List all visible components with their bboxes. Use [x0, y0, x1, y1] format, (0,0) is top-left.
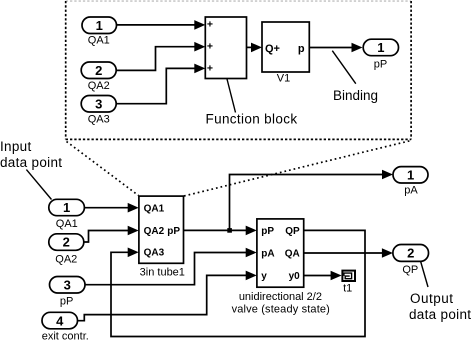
- svg-text:2: 2: [63, 235, 70, 250]
- block V1: [262, 22, 309, 85]
- dashed zoom-detail box: [66, 1, 411, 139]
- inport 2 (QA2, detail view): [81, 62, 116, 92]
- zoom funnel dotted line right: [184, 141, 411, 197]
- svg-text:pP: pP: [60, 295, 73, 307]
- svg-text:V1: V1: [277, 73, 290, 85]
- svg-text:QP: QP: [402, 264, 418, 276]
- svg-text:Q+: Q+: [265, 43, 280, 55]
- svg-text:2: 2: [95, 63, 102, 78]
- outport pP (detail view): [363, 39, 398, 70]
- svg-text:3in tube1: 3in tube1: [140, 266, 185, 278]
- wire QA1 to sum input 1: [117, 20, 206, 30]
- wire QA2 to sum input 2: [116, 42, 205, 71]
- svg-text:2: 2: [407, 246, 414, 261]
- inport 4 (exit contr.): [42, 312, 89, 341]
- wire inport 3 to valve pA: [85, 248, 257, 285]
- wire QA3 to sum input 3: [116, 64, 205, 104]
- feedback wire valve QP to tube QA3: [111, 230, 365, 336]
- callout line to Binding label: [332, 51, 356, 84]
- svg-text:1: 1: [407, 167, 414, 182]
- wire valve QA to outport 2: [304, 248, 393, 258]
- svg-text:+: +: [207, 19, 213, 31]
- svg-text:3: 3: [95, 97, 102, 112]
- wire branch to outport pA: [230, 170, 394, 231]
- svg-text:+: +: [207, 41, 213, 53]
- svg-text:1: 1: [96, 18, 103, 33]
- svg-text:Input: Input: [0, 139, 32, 154]
- wire sum to V1: [247, 43, 263, 53]
- svg-text:Binding: Binding: [333, 88, 378, 103]
- svg-text:QA2: QA2: [88, 80, 110, 92]
- outport 1 (pA): [393, 167, 428, 197]
- wire inport 2 to tube QA2: [84, 226, 139, 242]
- svg-text:QA3: QA3: [88, 114, 110, 126]
- svg-text:1: 1: [377, 40, 384, 55]
- svg-text:QA1: QA1: [56, 218, 78, 230]
- inport 1 (QA1): [49, 199, 85, 230]
- inport 3 (QA3, detail view): [81, 96, 116, 126]
- callout line to Function block label: [227, 79, 236, 113]
- svg-text:4: 4: [56, 313, 64, 328]
- svg-text:pA: pA: [404, 184, 418, 196]
- junction node on pP wire: [227, 228, 232, 233]
- svg-text:+: +: [207, 62, 213, 74]
- outport 2 (QP): [393, 245, 429, 277]
- wire inport 4 to valve y: [78, 271, 257, 321]
- wire tube pP to valve pP: [184, 226, 257, 236]
- svg-text:data point: data point: [409, 307, 471, 322]
- label Output data point: [409, 291, 471, 322]
- svg-text:QA2: QA2: [144, 226, 165, 237]
- zoom funnel dotted line left: [67, 142, 139, 196]
- svg-text:QA1: QA1: [88, 34, 110, 46]
- terminator block t1: [342, 271, 355, 295]
- svg-text:exit contr.: exit contr.: [42, 331, 89, 341]
- wire V1 to outport pP: [309, 43, 362, 53]
- svg-text:3: 3: [64, 278, 71, 293]
- svg-text:pA: pA: [261, 248, 274, 259]
- label Input data point: [0, 139, 62, 170]
- svg-text:QA: QA: [285, 248, 300, 259]
- inport 3 (pP): [50, 277, 86, 308]
- svg-text:Output: Output: [410, 291, 454, 306]
- svg-text:pP: pP: [261, 226, 274, 237]
- svg-text:1: 1: [63, 200, 70, 215]
- callout line from Input data point to inport 1: [26, 170, 51, 200]
- svg-text:y0: y0: [289, 271, 301, 282]
- svg-text:valve (steady state): valve (steady state): [232, 303, 330, 315]
- svg-text:QP: QP: [285, 226, 300, 237]
- block 3in tube1: [139, 196, 185, 278]
- svg-text:Function block: Function block: [206, 112, 298, 127]
- svg-text:unidirectional 2/2: unidirectional 2/2: [239, 291, 322, 303]
- svg-text:t1: t1: [343, 282, 352, 294]
- svg-text:p: p: [298, 43, 305, 55]
- inport 2 (QA2): [49, 234, 84, 266]
- svg-text:QA2: QA2: [55, 253, 77, 265]
- callout line to Output data point label: [421, 261, 429, 287]
- svg-text:y: y: [261, 271, 267, 282]
- svg-text:pP: pP: [374, 59, 387, 71]
- svg-text:QA3: QA3: [144, 248, 165, 259]
- inport 1 (QA1, detail view): [82, 17, 117, 46]
- wire inport 1 to tube QA1: [84, 203, 138, 213]
- sum block (Function block): [205, 17, 246, 79]
- svg-text:pP: pP: [167, 226, 180, 237]
- block unidirectional 2/2 valve: [232, 219, 330, 315]
- svg-text:data point: data point: [0, 155, 62, 170]
- wire valve y0 to terminator t1: [304, 271, 342, 281]
- svg-text:QA1: QA1: [144, 203, 165, 214]
